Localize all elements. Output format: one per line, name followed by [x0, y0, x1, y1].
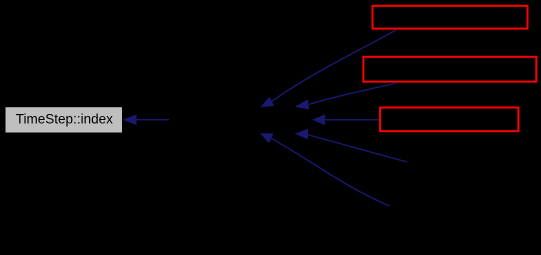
wire edge A to TimeStep::index — [123, 114, 169, 125]
wire edge caller3 to A — [312, 115, 379, 126]
wire edge caller4 to A — [295, 129, 408, 162]
wire edge caller5 to A — [260, 133, 390, 206]
node caller 1 (red truncated box, top) — [373, 6, 528, 29]
node caller 3 (red truncated box, lower) — [380, 108, 518, 132]
node TimeStep::index (current node, grey) — [6, 107, 123, 132]
node caller 2 (red truncated box, middle) — [363, 57, 536, 82]
svg-text:TimeStep::index: TimeStep::index — [16, 111, 113, 126]
wire edge caller2 to A — [295, 83, 396, 110]
wire edge caller1 to A — [260, 30, 396, 107]
